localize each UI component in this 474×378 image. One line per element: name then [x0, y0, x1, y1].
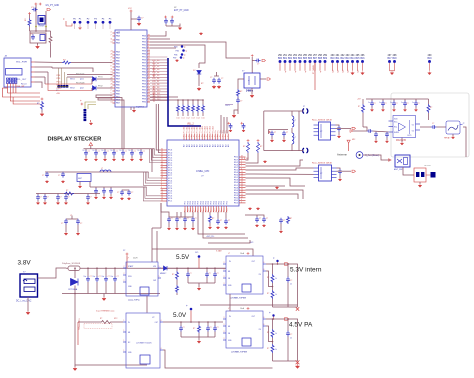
svg-text:AD: AD	[193, 144, 196, 147]
svg-text:C?: C?	[60, 197, 62, 199]
svg-text:4: 4	[241, 163, 242, 165]
svg-text:C?: C?	[131, 192, 133, 194]
wires rows link	[75, 294, 147, 366]
svg-text:7: 7	[241, 166, 242, 168]
resistor R3	[198, 80, 200, 86]
svg-text:IN: IN	[229, 261, 231, 263]
ground	[237, 104, 239, 114]
resistor R2 horizontal	[62, 61, 71, 64]
svg-text:B09: B09	[323, 58, 328, 60]
svg-text:5: 5	[148, 43, 149, 45]
svg-text:36: 36	[148, 34, 150, 36]
ground	[419, 182, 421, 184]
capacitor C4	[131, 18, 137, 20]
output divider 2	[272, 319, 274, 329]
svg-text:PA0: PA0	[116, 39, 121, 42]
svg-text:14: 14	[148, 52, 150, 54]
vertical feed from row1 to blockD	[200, 304, 298, 306]
svg-text:29: 29	[111, 86, 113, 88]
svg-text:35: 35	[161, 154, 163, 156]
svg-text:22: 22	[241, 181, 243, 183]
svg-text:AD2: AD2	[193, 126, 196, 129]
wires into U2 top	[220, 115, 222, 134]
svg-text:PB1: PB1	[142, 57, 147, 59]
svg-text:+3V3_PLL: +3V3_PLL	[206, 236, 214, 238]
svg-text:C?: C?	[432, 123, 434, 125]
svg-text:P4: P4	[102, 18, 105, 20]
caps below U2	[167, 217, 171, 223]
LED D3	[197, 71, 201, 75]
svg-text:32: 32	[161, 151, 163, 153]
svg-text:AD: AD	[227, 144, 230, 147]
svg-text:PA4: PA4	[116, 35, 121, 38]
svg-text:V_BAT: V_BAT	[216, 250, 222, 253]
svg-text:PA7: PA7	[116, 102, 121, 105]
svg-text:PA5: PA5	[116, 84, 121, 87]
svg-text:B18: B18	[393, 58, 398, 60]
svg-text:TPSxxxxWITH: TPSxxxxWITH	[79, 318, 81, 330]
svg-text:C?: C?	[259, 218, 261, 220]
svg-text:tp: tp	[186, 304, 187, 307]
svg-text:PB0: PB0	[142, 96, 147, 98]
ground wire out2	[273, 360, 298, 362]
svg-text:AD4: AD4	[211, 126, 214, 129]
wire to LED	[198, 63, 200, 68]
svg-text:C?: C?	[40, 197, 42, 199]
resistor R10	[427, 104, 430, 113]
svg-text:14: 14	[111, 71, 113, 73]
wires U2 right to ICs	[246, 160, 304, 166]
svg-text:U?: U?	[201, 176, 204, 178]
block C out wire	[163, 321, 223, 323]
svg-text:LC1: LC1	[182, 118, 185, 120]
svg-text:AD0: AD0	[183, 126, 186, 129]
svg-text:PE2: PE2	[226, 201, 228, 204]
ground op-amp	[401, 138, 403, 143]
svg-text:tp: tp	[184, 46, 185, 49]
test point D power	[126, 253, 129, 256]
svg-text:21: 21	[161, 200, 163, 202]
svg-text:NTC: NTC	[114, 318, 118, 320]
svg-text:X?: X?	[303, 106, 305, 108]
svg-text:PB5: PB5	[176, 51, 179, 53]
wire rows to U1	[52, 68, 93, 72]
svg-text:PB7: PB7	[142, 63, 147, 65]
svg-text:C?: C?	[107, 151, 109, 153]
svg-text:U?: U?	[152, 317, 154, 319]
svg-text:PB5: PB5	[142, 45, 147, 47]
svg-text:37: 37	[241, 156, 243, 158]
capacitor C7	[251, 54, 254, 57]
capacitor C2	[31, 34, 35, 40]
svg-text:PA7: PA7	[116, 78, 121, 81]
svg-text:AD: AD	[198, 144, 201, 147]
svg-text:tp2: tp2	[341, 69, 344, 73]
capacitor C5	[164, 18, 168, 24]
svg-text:FB: FB	[228, 333, 230, 335]
capacitor C6	[170, 18, 174, 24]
connector pins hatched	[7, 78, 9, 84]
port arrow on rail	[89, 143, 93, 146]
pin stub right + port	[260, 78, 266, 80]
svg-text:C?: C?	[125, 151, 127, 153]
wires from U1 lower-left going down	[96, 95, 122, 149]
svg-text:C?: C?	[190, 273, 192, 275]
wire block B out	[266, 264, 298, 307]
svg-text:AD: AD	[214, 144, 217, 147]
svg-text:C?: C?	[209, 273, 211, 275]
svg-text:LC2: LC2	[187, 118, 190, 120]
svg-text:R?: R?	[358, 106, 360, 108]
DCDC block B	[226, 256, 263, 294]
svg-text:IN1-: IN1-	[394, 127, 398, 129]
svg-text:TQFP64: TQFP64	[136, 107, 145, 109]
svg-text:C?: C?	[187, 218, 189, 220]
svg-text:42: 42	[161, 161, 163, 163]
svg-text:AD: AD	[222, 144, 225, 147]
svg-text:PA0: PA0	[116, 87, 121, 90]
wire loop	[264, 110, 299, 112]
svg-text:PB6: PB6	[142, 102, 147, 104]
svg-text:1: 1	[148, 79, 149, 81]
svg-text:10: 10	[120, 150, 122, 152]
wire switch down	[403, 167, 414, 175]
diode D2 BAV99	[93, 86, 97, 90]
svg-text:39: 39	[241, 158, 243, 160]
resistor R1	[28, 19, 31, 27]
svg-text:3.8V: 3.8V	[18, 260, 32, 267]
svg-text:START: START	[128, 265, 133, 268]
svg-text:AD: AD	[196, 144, 199, 147]
svg-text:P1: P1	[79, 18, 82, 20]
svg-text:C?: C?	[61, 223, 63, 225]
svg-text:23: 23	[148, 61, 150, 63]
fuse F1	[68, 266, 80, 271]
svg-text:26: 26	[111, 53, 113, 55]
svg-text:C?: C?	[210, 77, 212, 79]
svg-text:OUT: OUT	[251, 316, 255, 318]
DCDC block D	[226, 311, 263, 348]
svg-text:C?: C?	[134, 151, 136, 153]
fan wires U1 right top	[150, 31, 166, 36]
svg-text:7: 7	[148, 85, 149, 87]
sub-circuit box	[29, 31, 31, 33]
svg-text:45: 45	[161, 164, 163, 166]
svg-text:PB0: PB0	[142, 72, 147, 74]
svg-text:L?: L?	[228, 253, 230, 255]
caps row power1b	[187, 268, 189, 272]
svg-text:Pn: Pn	[228, 131, 230, 133]
svg-text:PB7: PB7	[173, 58, 176, 60]
svg-text:PD11: PD11	[57, 85, 62, 87]
capacitor C1	[32, 8, 38, 12]
svg-text:4: 4	[148, 82, 149, 84]
diode D5	[164, 266, 168, 270]
svg-text:PA2: PA2	[116, 57, 121, 60]
svg-text:PT02: PT02	[98, 86, 103, 88]
svg-text:1k: 1k	[275, 333, 277, 335]
svg-text:24MHz: 24MHz	[246, 90, 254, 93]
svg-text:AD7: AD7	[191, 126, 194, 129]
svg-text:16: 16	[148, 94, 150, 96]
svg-text:ATMEL_UPD: ATMEL_UPD	[196, 170, 210, 173]
long stem with label	[314, 63, 316, 91]
svg-text:P2: P2	[87, 18, 90, 20]
wires from header	[85, 102, 96, 109]
svg-text:C?: C?	[407, 103, 409, 105]
svg-text:MAX4245: MAX4245	[396, 139, 407, 142]
svg-text:IN1+: IN1+	[394, 121, 398, 123]
svg-text:B16: B16	[361, 58, 366, 60]
svg-text:AD2: AD2	[209, 126, 212, 129]
caps pair x125	[120, 190, 124, 196]
inductor L2	[100, 170, 111, 172]
resistor R6 vertical left	[41, 101, 44, 110]
svg-text:PD9: PD9	[57, 78, 61, 80]
svg-text:tp: tp	[80, 99, 81, 102]
wires filter to U1	[45, 83, 92, 85]
svg-text:C?: C?	[217, 273, 219, 275]
wire coax to switch	[363, 155, 390, 160]
svg-text:PA1: PA1	[116, 32, 121, 35]
capacitor C11 series	[367, 129, 373, 133]
svg-text:C?: C?	[266, 218, 268, 220]
svg-text:EN: EN	[228, 271, 231, 273]
svg-text:23: 23	[111, 80, 113, 82]
svg-text:R?: R?	[267, 293, 269, 295]
svg-text:10uH: 10uH	[240, 308, 245, 310]
svg-text:37: 37	[161, 156, 163, 158]
svg-text:C?: C?	[396, 103, 398, 105]
svg-text:10: 10	[111, 150, 113, 152]
svg-text:10: 10	[83, 150, 85, 152]
svg-text:tp: tp	[273, 257, 274, 260]
svg-text:LC4: LC4	[197, 118, 200, 120]
svg-text:USB_INT: USB_INT	[16, 86, 25, 88]
svg-text:35: 35	[241, 194, 243, 196]
svg-text:tp: tp	[304, 71, 307, 73]
diode D1 BAV99	[93, 77, 97, 81]
test point X_ANT	[347, 140, 350, 143]
port arrow out2	[285, 318, 289, 321]
svg-text:AD4: AD4	[204, 126, 207, 129]
resistor row RN	[150, 96, 178, 98]
svg-text:PA4: PA4	[116, 75, 121, 78]
svg-text:SM?: SM?	[78, 178, 82, 180]
svg-text:C?: C?	[90, 197, 92, 199]
svg-text:2: 2	[241, 201, 242, 203]
wire rail1 down	[151, 149, 153, 172]
transistor Q1	[40, 35, 45, 41]
svg-text:NT01: NT01	[70, 79, 75, 81]
svg-text:C?: C?	[283, 220, 285, 222]
svg-text:2: 2	[241, 161, 242, 163]
svg-text:4.5V PA: 4.5V PA	[289, 322, 313, 329]
main IC U2	[167, 140, 239, 206]
svg-text:CPT030A: CPT030A	[68, 288, 78, 291]
port X marker	[296, 307, 299, 310]
svg-text:AD: AD	[224, 144, 227, 147]
svg-text:4: 4	[111, 31, 112, 33]
svg-text:PB4: PB4	[142, 36, 147, 38]
resistor R8	[257, 142, 260, 153]
svg-text:13: 13	[161, 192, 163, 194]
port arrow out1	[285, 263, 289, 266]
caps row power2	[180, 322, 182, 326]
svg-text:R?: R?	[201, 83, 203, 85]
svg-text:5.0V: 5.0V	[173, 312, 187, 319]
svg-text:tp1: tp1	[336, 69, 339, 73]
svg-text:tp: tp	[294, 71, 297, 73]
svg-text:tp: tp	[184, 54, 185, 57]
svg-text:AD7: AD7	[206, 126, 209, 129]
svg-text:19: 19	[241, 178, 243, 180]
svg-text:58: 58	[161, 177, 163, 179]
svg-text:C?: C?	[240, 101, 242, 103]
svg-text:R?: R?	[66, 190, 68, 192]
svg-text:26: 26	[111, 83, 113, 85]
svg-text:11: 11	[111, 38, 113, 40]
svg-text:PA6: PA6	[116, 69, 121, 72]
svg-text:11: 11	[111, 98, 113, 100]
svg-text:C?: C?	[80, 223, 82, 225]
svg-text:29: 29	[111, 56, 113, 58]
test points PB group	[181, 45, 184, 48]
svg-text:VDD: VDD	[394, 119, 398, 121]
svg-text:55: 55	[161, 174, 163, 176]
svg-text:47: 47	[161, 166, 163, 168]
svg-text:LC0: LC0	[177, 118, 180, 120]
svg-text:AD: AD	[206, 144, 209, 147]
svg-text:HPKA?: HPKA?	[444, 137, 450, 140]
svg-text:C?: C?	[220, 220, 222, 222]
svg-text:5: 5	[111, 92, 112, 94]
svg-text:5.3V intern: 5.3V intern	[290, 267, 322, 274]
svg-text:30: 30	[241, 189, 243, 191]
svg-text:NC: NC	[128, 342, 131, 344]
inner cap cluster	[269, 129, 289, 131]
svg-text:R?: R?	[193, 328, 195, 330]
inductor L4	[292, 133, 294, 144]
U1 right pin rows into bus	[150, 56, 167, 58]
svg-text:GND: GND	[128, 352, 132, 354]
svg-text:20: 20	[111, 77, 113, 79]
svg-text:tp0: tp0	[331, 69, 334, 73]
svg-text:PA1: PA1	[116, 72, 121, 75]
svg-text:C?: C?	[257, 64, 259, 66]
svg-text:WCL_PWR: WCL_PWR	[16, 62, 27, 64]
svg-text:C?: C?	[58, 175, 60, 177]
svg-text:38: 38	[148, 76, 150, 78]
svg-text:PB0: PB0	[142, 48, 147, 50]
caps near U2 top	[212, 78, 216, 84]
ground jack	[452, 134, 454, 136]
svg-text:C?: C?	[98, 151, 100, 153]
svg-text:0: 0	[241, 199, 242, 201]
svg-text:SW: SW	[153, 280, 156, 282]
svg-text:SHDN: SHDN	[394, 132, 400, 134]
svg-text:can xxxx: can xxxx	[424, 165, 431, 167]
svg-text:PB3: PB3	[142, 75, 147, 77]
svg-text:50: 50	[161, 169, 163, 171]
svg-text:xxTOMIE_TOPSW: xxTOMIE_TOPSW	[230, 298, 246, 300]
svg-text:1k: 1k	[275, 349, 277, 351]
wire block D out	[266, 319, 298, 361]
svg-text:C?: C?	[274, 132, 276, 134]
svg-text:R?: R?	[267, 277, 269, 279]
svg-text:17: 17	[148, 55, 150, 57]
svg-text:C?: C?	[418, 103, 420, 105]
U2 right pins	[239, 156, 246, 158]
svg-text:DC_/_mc_DNC: DC_/_mc_DNC	[16, 301, 32, 303]
svg-text:PB2: PB2	[142, 66, 147, 68]
svg-text:xt: xt	[248, 79, 250, 82]
headphone jack X3	[446, 121, 460, 134]
wire battery to fuse	[38, 268, 67, 278]
svg-text:EXT_PT_GND: EXT_PT_GND	[174, 10, 189, 12]
svg-text:C?: C?	[217, 327, 219, 329]
inductor L1	[50, 31, 52, 35]
svg-text:C?: C?	[88, 151, 90, 153]
svg-text:FB: FB	[228, 278, 230, 280]
svg-text:14: 14	[111, 41, 113, 43]
svg-text:52: 52	[161, 171, 163, 173]
caps row power1	[87, 268, 89, 276]
svg-text:29: 29	[148, 67, 150, 69]
svg-text:2: 2	[111, 89, 112, 91]
svg-text:1k: 1k	[275, 294, 277, 296]
svg-text:15: 15	[161, 194, 163, 196]
svg-text:B11: B11	[336, 58, 341, 60]
svg-text:VIN: VIN	[153, 266, 157, 268]
DCDC block A	[126, 262, 158, 296]
svg-text:C?: C?	[42, 175, 44, 177]
svg-text:R?: R?	[37, 103, 39, 105]
svg-text:C?: C?	[116, 151, 118, 153]
svg-text:C?: C?	[68, 197, 70, 199]
svg-text:1u: 1u	[412, 102, 414, 104]
svg-text:37: 37	[241, 196, 243, 198]
vertical wires to lower section	[156, 104, 160, 150]
connector output wires	[31, 61, 35, 63]
svg-text:+3V: +3V	[357, 99, 361, 101]
svg-text:PB3: PB3	[142, 51, 147, 53]
svg-text:VBL_2: VBL_2	[187, 124, 194, 126]
connector symbol bottom	[303, 148, 304, 153]
svg-text:U?: U?	[320, 131, 322, 133]
svg-text:J?: J?	[463, 123, 465, 125]
ground	[137, 22, 141, 26]
svg-text:LCD_D6: LCD_D6	[152, 78, 159, 80]
svg-text:LCD_DATA_BUS: LCD_DATA_BUS	[153, 85, 156, 102]
ground under U1	[133, 107, 135, 109]
svg-text:C?: C?	[141, 18, 143, 20]
svg-text:AD: AD	[217, 144, 220, 147]
svg-text:10: 10	[102, 150, 104, 152]
svg-text:B19: B19	[428, 58, 433, 60]
svg-text:C?: C?	[374, 103, 376, 105]
svg-text:10: 10	[93, 150, 95, 152]
ground battery	[27, 297, 29, 311]
test point A0 ground	[78, 27, 81, 30]
svg-text:1k: 1k	[275, 278, 277, 280]
svg-text:PD8: PD8	[57, 75, 61, 77]
svg-text:3: 3	[161, 182, 162, 184]
svg-text:32: 32	[148, 70, 150, 72]
svg-text:R?: R?	[100, 318, 102, 320]
svg-text:L?: L?	[294, 120, 296, 122]
svg-text:C?: C?	[385, 103, 387, 105]
